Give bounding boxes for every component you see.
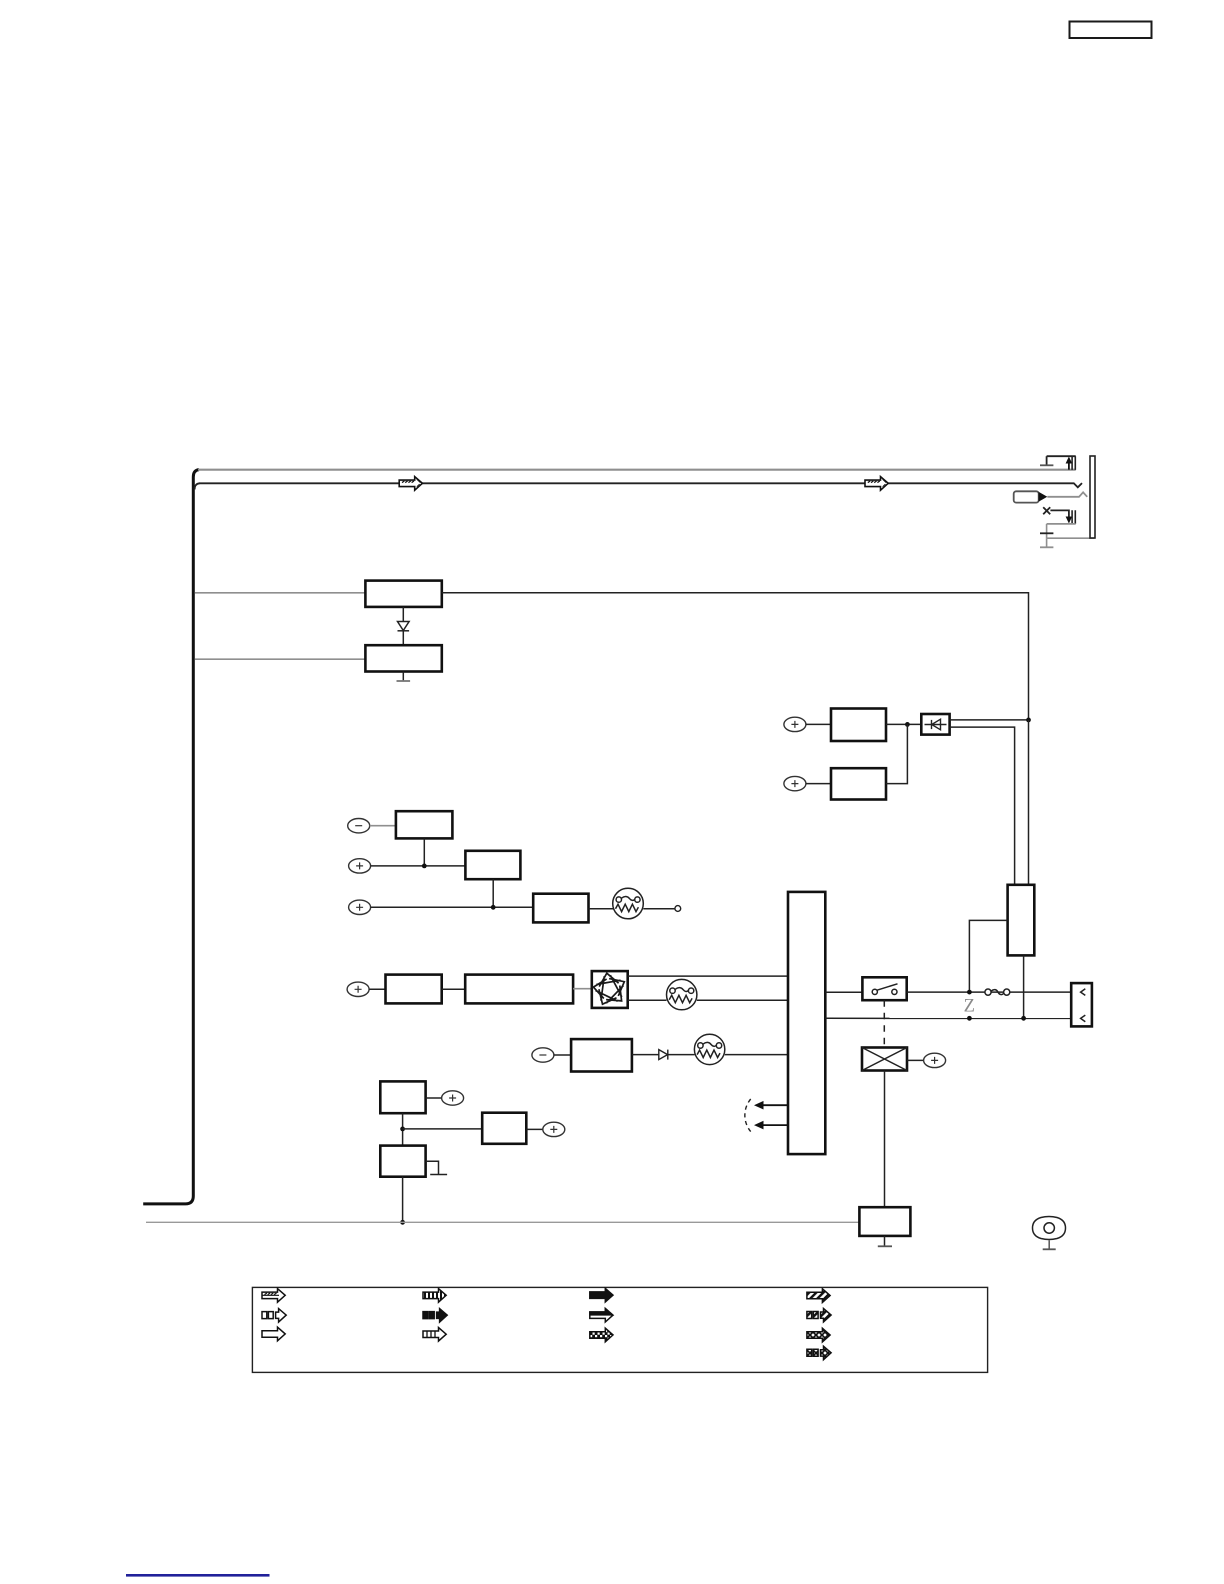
- wire node to box I: [403, 1128, 483, 1130]
- wire: riser down to transformer: [1028, 720, 1030, 885]
- antenna mast double bar: [1090, 456, 1095, 538]
- wire: board lower output: [825, 1017, 1080, 1019]
- plus terminal fan: [924, 1053, 946, 1067]
- sensor box H: [380, 1146, 425, 1177]
- node dot on ground bus: [400, 1220, 405, 1225]
- wire box G to plus: [426, 1097, 442, 1099]
- control board (tall block): [788, 892, 825, 1154]
- wire: gray feed to power box 2: [195, 658, 365, 660]
- plus terminal G: [442, 1091, 464, 1105]
- legend frame: [252, 1287, 987, 1372]
- inline diode: [659, 1050, 668, 1060]
- signal-flow arrow on black bus (left): [399, 477, 422, 491]
- antenna terminal: lower connector double bars: [1072, 510, 1075, 524]
- antenna terminal: top connector double bars: [1072, 456, 1075, 470]
- sensor box G: [380, 1081, 425, 1113]
- power box 2: [365, 645, 441, 671]
- empty reference box top right: [1070, 22, 1152, 39]
- diode module box: [921, 714, 949, 735]
- ground under power box 2: [402, 672, 404, 681]
- node dot row B: [422, 864, 427, 869]
- wire TR1 to node: [886, 723, 921, 725]
- thermal cutout 1: [613, 888, 644, 919]
- wire: transformer left tap down to fuse line: [969, 920, 1007, 991]
- legend arrow c4r2 hatched squares: [807, 1309, 831, 1322]
- thermal cutout 2: [667, 979, 697, 1009]
- wire: box G drop: [402, 1113, 404, 1145]
- wire box E to compressor: [573, 988, 592, 990]
- wire: diode module lower output: [950, 727, 1015, 885]
- wire: box A drop to node: [423, 838, 425, 866]
- legend arrow c3r1 solid: [590, 1288, 613, 1302]
- antenna terminal: top tap stub and bar: [1046, 456, 1048, 465]
- wire: box B drop to node: [492, 879, 494, 907]
- power box 1: [365, 581, 441, 607]
- wire box F to diode: [632, 1054, 659, 1056]
- wire diode to thermal cutout 3: [668, 1054, 695, 1056]
- terminal box bottom: [859, 1207, 910, 1236]
- wire TR1: [806, 723, 831, 725]
- dashed mechanical link from switch: [883, 1000, 885, 1047]
- minus terminal row F: [532, 1048, 554, 1062]
- ground under terminal box: [884, 1236, 886, 1246]
- legend arrow c4r1 diagonal hatch: [807, 1289, 830, 1303]
- fan motor crossed box: [862, 1048, 907, 1071]
- long control box E: [465, 975, 573, 1004]
- relay box TR2: [831, 768, 886, 799]
- wire: lower connector feed with down arrow: [1050, 510, 1069, 517]
- ground tab right of box H: [426, 1161, 439, 1174]
- terminal connector box with receptacles: [1071, 983, 1092, 1026]
- antenna terminal: up arrow into connector: [1068, 462, 1070, 470]
- wire to box F: [554, 1054, 571, 1056]
- wire: thermal cutout 2 to control board: [697, 999, 788, 1001]
- ground bus wire: [146, 1221, 859, 1223]
- wire: board to switch: [825, 991, 862, 993]
- wire: thermal cutout 3 to control board: [725, 1054, 788, 1056]
- wire to control box A: [370, 825, 396, 827]
- legend arrow c1r3 plain: [262, 1327, 285, 1341]
- node dot TR: [905, 722, 910, 727]
- wire: fan motor to plus: [907, 1059, 924, 1061]
- control box F: [571, 1039, 632, 1071]
- wire: top gray bus y=469.7: [198, 469, 1076, 471]
- wire: gray feed to power box 1: [195, 592, 365, 594]
- control box A: [396, 811, 453, 838]
- wire: compressor lower output: [628, 999, 667, 1001]
- power switch box: [862, 977, 906, 1000]
- diode below power box 1: [402, 607, 404, 621]
- legend arrow c1r1 striped: [262, 1289, 285, 1303]
- antenna terminal: top cap line: [1047, 455, 1076, 457]
- node dot lower line left: [967, 1016, 972, 1021]
- wire box D to box E: [442, 988, 466, 990]
- footer link rule: [126, 1574, 270, 1577]
- fuse: [985, 989, 1010, 995]
- control box B: [465, 851, 520, 879]
- ground stub under link: [1046, 538, 1048, 547]
- plug body: [1014, 491, 1039, 502]
- wire TR2: [806, 783, 831, 785]
- node dot row C: [491, 905, 496, 910]
- compressor starburst box: [592, 971, 628, 1008]
- wire: box H drop to ground bus: [402, 1177, 404, 1223]
- wire: compressor upper output to control board: [628, 975, 788, 977]
- plus terminal row C: [349, 900, 371, 914]
- wire TR2 up to node: [886, 724, 907, 783]
- wire: main loop thick left vertical with bottom-left tail: [143, 470, 199, 1204]
- wire: fan motor drop to terminal box: [884, 1071, 886, 1208]
- wire: box C to thermal cutout: [589, 908, 614, 910]
- relay box TR1: [831, 709, 886, 742]
- legend arrow c2r1 dense bars: [423, 1289, 446, 1303]
- node dot lower line right: [1021, 1016, 1026, 1021]
- plug tip triangle: [1039, 492, 1048, 502]
- wire: power box 1 output to right riser: [442, 593, 1029, 720]
- antenna lower x mark: [1043, 507, 1050, 514]
- wire: lower gray cap: [1047, 523, 1076, 525]
- open terminal circle: [675, 906, 681, 912]
- thermal cutout 3: [694, 1034, 724, 1064]
- legend arrow c4r3 diamond: [807, 1328, 830, 1342]
- wire box I to plus: [526, 1128, 543, 1130]
- control box D: [386, 975, 442, 1004]
- wire: plug lead with end bump: [1047, 492, 1087, 497]
- legend arrow c1r2 squares: [262, 1309, 286, 1322]
- node dot G: [400, 1127, 405, 1132]
- lower tap stub, bar: [1046, 524, 1048, 538]
- chassis screw symbol: [1033, 1217, 1066, 1250]
- wire: diode module upper output: [950, 719, 1029, 721]
- sensor box I: [482, 1113, 526, 1144]
- legend arrow c3r2 half solid: [590, 1308, 613, 1322]
- wire: black bus y=483.3 with end notch: [195, 483, 200, 489]
- wire: transformer bottom drop: [1023, 955, 1025, 1018]
- transformer (vertical block): [1008, 885, 1035, 956]
- wire to box D: [369, 988, 385, 990]
- wire row C: [371, 906, 534, 908]
- legend arrow c2r3 ladder: [423, 1328, 446, 1342]
- plus terminal row D: [347, 982, 369, 996]
- arrow pins out of board: [762, 1104, 787, 1106]
- node dot fuse line: [967, 990, 972, 995]
- dashed arc: [745, 1099, 751, 1132]
- plus terminal I: [543, 1122, 565, 1136]
- signal-flow arrow on black bus (right): [865, 477, 888, 491]
- plus terminal TR2: [784, 776, 806, 790]
- wire: switch to fuse line: [907, 991, 1081, 993]
- legend arrow c4r4 crosshatch squares: [807, 1346, 831, 1359]
- control box C: [533, 894, 588, 923]
- wire: bottom link to mast: [1047, 537, 1095, 539]
- wire row B: [371, 865, 466, 867]
- plus terminal TR1: [784, 717, 806, 731]
- node dot riser: [1026, 718, 1031, 723]
- plus terminal row B: [349, 859, 371, 873]
- legend arrow c2r2 solid squares: [423, 1309, 447, 1322]
- minus terminal row A: [348, 819, 370, 833]
- legend arrow c3r3 checker: [590, 1328, 613, 1342]
- wire: thermal cutout to open terminal: [643, 908, 675, 910]
- svg-text:Z: Z: [964, 996, 975, 1016]
